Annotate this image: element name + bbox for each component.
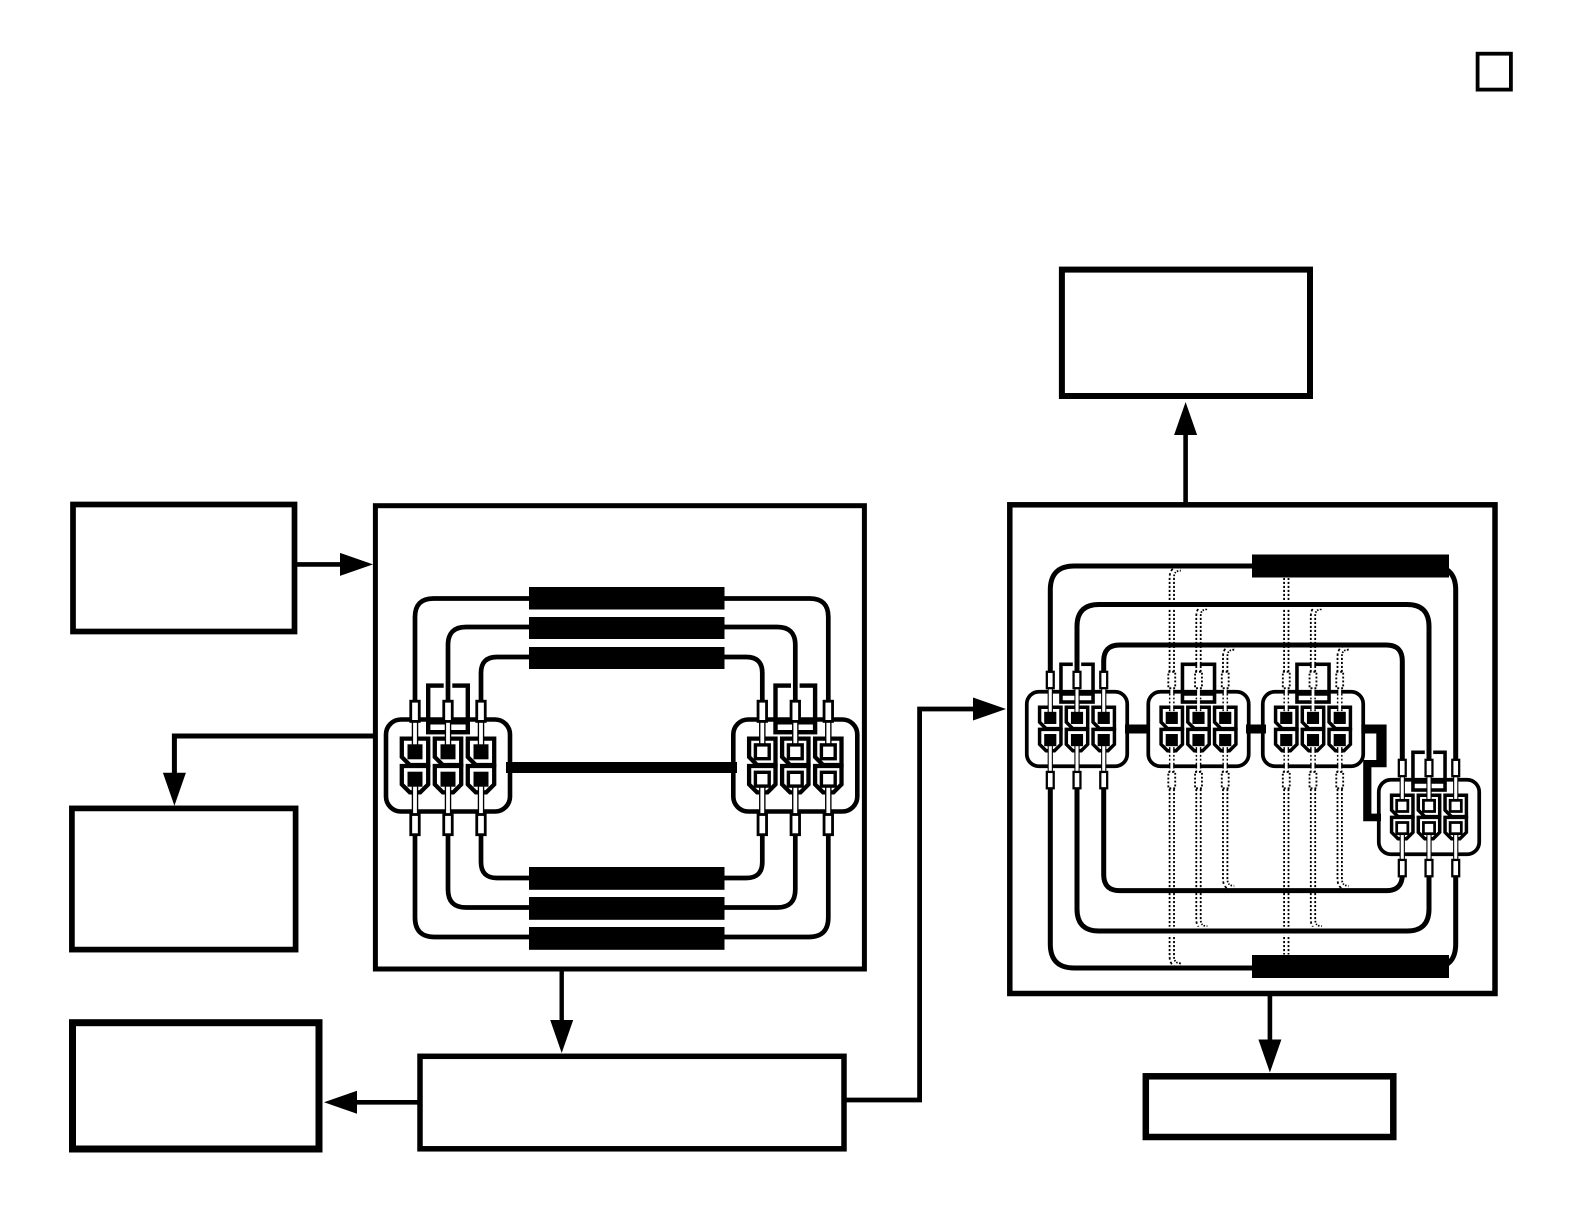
connector C3 pins <box>1280 712 1346 746</box>
left harness box <box>375 506 864 969</box>
connector P1 leads <box>415 716 481 819</box>
right harness box <box>1010 505 1495 994</box>
wire: P1 pin2 to P2 pin2 top circuit <box>448 627 795 704</box>
wire: P1 pin5 to P2 pin5 bottom circuit <box>448 832 795 908</box>
connector C4 body <box>1379 752 1479 854</box>
connector C2 leads <box>1172 682 1225 775</box>
wire: C1 pin5 middle bottom run to C4 pin5 <box>1077 789 1429 931</box>
connector P1 pins <box>408 744 489 786</box>
connector C1 leads <box>1050 682 1103 775</box>
harness trunk link C3 to C4 <box>1361 725 1386 822</box>
hidden wire: C2 pin1 up to outer run <box>1172 569 1181 677</box>
hidden wire: C2 pin3 up to inner run <box>1225 648 1234 677</box>
splice cover bar top 1 <box>529 587 725 610</box>
splice cover bar top 3 <box>529 647 725 669</box>
wire: C1 pin4 outer bottom run to C4 pin6 <box>1050 789 1455 968</box>
wire: C1 pin3 inner top run to C4 pin1 <box>1104 645 1403 764</box>
connector C1 pins <box>1044 712 1110 746</box>
harness trunk link C1 to C2 <box>1125 725 1150 734</box>
connector C2 body <box>1148 664 1248 766</box>
wire: P1 pin4 to P2 pin6 bottom circuit <box>415 832 828 937</box>
harness trunk link P1 to P2 <box>506 762 737 773</box>
hidden wire: C2 pin5 down to middle run <box>1199 789 1208 929</box>
splice cover bar bottom 3 <box>529 927 725 950</box>
block: bottom right box <box>1146 1076 1394 1137</box>
connector P2 leads <box>762 716 828 819</box>
connector P1 body <box>386 686 510 812</box>
flow arrow: bottom center box to bottom left box <box>324 1091 420 1114</box>
connector C1 body <box>1027 664 1127 766</box>
splice cover bar bottom 2 <box>529 897 725 920</box>
hidden wire: C3 pin2 up to middle run <box>1313 607 1322 676</box>
wire: P1 pin3 to P2 pin1 top circuit <box>481 657 762 704</box>
hidden wire: C2 pin2 up to middle run <box>1199 607 1208 676</box>
splice cover bar right top <box>1252 555 1449 578</box>
hidden wire: C3 pin5 down to middle run <box>1313 789 1322 929</box>
wire: C1 pin1 outer top run to C4 pin3 <box>1050 566 1455 764</box>
connector P2 pins <box>755 745 835 786</box>
connector P1 crimp terminals <box>411 701 486 835</box>
connector C1 cavities <box>1040 707 1115 751</box>
connector P2 body <box>733 686 857 812</box>
block: middle left box <box>72 808 296 949</box>
splice cover bar right bottom <box>1252 955 1449 978</box>
revision marker box <box>1478 54 1511 90</box>
wire: P1 pin1 to P2 pin3 top circuit <box>415 599 828 704</box>
splice cover bar top 2 <box>529 617 725 639</box>
hidden wire: C3 pin3 up to inner run <box>1340 648 1349 677</box>
connector C3 crimp terminals <box>1283 672 1343 788</box>
flow arrow: top left box to left harness box <box>296 553 373 576</box>
hidden wire: C3 pin6 down to inner run <box>1340 789 1349 888</box>
hidden wire: C3 pin1 up to top splice <box>1283 578 1289 676</box>
connector C4 crimp terminals <box>1399 760 1459 876</box>
connector P2 crimp terminals <box>758 701 833 835</box>
harness trunk link C2 to C3 <box>1246 725 1266 734</box>
hidden wire: C3 pin4 down to bottom splice <box>1283 789 1289 955</box>
flow arrow: right harness box to bottom right box <box>1258 994 1281 1073</box>
block: top right box <box>1062 270 1310 396</box>
connector C4 cavities <box>1392 795 1467 839</box>
block: top left box <box>73 505 295 632</box>
flow arrow: bottom center box to right harness box <box>844 698 1006 1101</box>
connector C3 cavities <box>1276 707 1351 751</box>
hidden wire: C2 pin6 down to inner run <box>1225 789 1234 888</box>
connector C1 crimp terminals <box>1047 672 1107 788</box>
wire: C1 pin2 middle top run to C4 pin2 <box>1077 605 1429 765</box>
flow arrow: left harness box to bottom center box <box>550 969 573 1053</box>
connector P2 cavities <box>749 739 841 793</box>
connector P1 cavities <box>402 739 494 793</box>
wire: C1 pin6 inner bottom run to C4 pin4 <box>1104 789 1403 891</box>
connector C2 pins <box>1166 712 1232 746</box>
splice cover bar bottom 1 <box>529 867 725 890</box>
block: bottom center box <box>420 1056 844 1149</box>
connector C4 leads <box>1402 770 1455 863</box>
connector C2 cavities <box>1161 707 1236 751</box>
connector C4 pins <box>1397 800 1462 833</box>
flow arrow: left harness box to middle left box <box>163 736 375 806</box>
connector C2 crimp terminals <box>1168 672 1228 788</box>
connector C3 body <box>1263 664 1363 766</box>
flow arrow: right harness box to top right box <box>1174 402 1197 505</box>
block: bottom left box <box>73 1023 320 1149</box>
hidden wire: C2 pin4 down to outer run <box>1172 789 1181 966</box>
connector C3 leads <box>1286 682 1339 775</box>
wire: P1 pin6 to P2 pin4 bottom circuit <box>481 832 762 878</box>
